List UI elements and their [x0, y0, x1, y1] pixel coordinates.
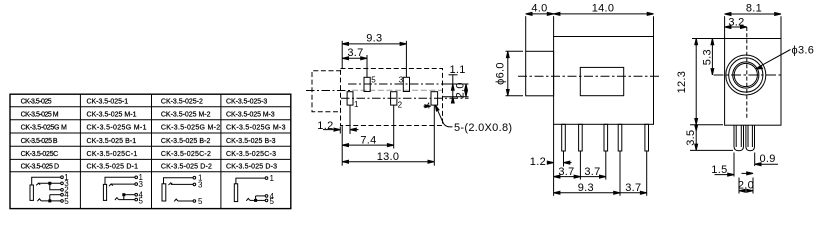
- pin 1 (top view): [347, 92, 353, 105]
- svg-text:1.2: 1.2: [530, 156, 546, 168]
- dimension 3.7 second line: [580, 176, 605, 178]
- outer circle: [726, 55, 766, 95]
- wire vertical 4-5: [49, 195, 51, 201]
- tick bottom (3.5): [690, 149, 733, 151]
- svg-text:1.1: 1.1: [450, 64, 466, 76]
- svg-text:5-(2.0X0.8): 5-(2.0X0.8): [454, 122, 512, 134]
- contact switch pin3: [36, 183, 40, 185]
- vertical centerline (front view): [746, 27, 748, 118]
- terminal pin2: [61, 189, 64, 192]
- terminal pin5: [135, 198, 138, 201]
- tick middle (12.3 bottom): [690, 124, 723, 126]
- svg-text:1.2: 1.2: [317, 120, 333, 132]
- body (side view): [554, 37, 654, 125]
- svg-text:8.1: 8.1: [746, 3, 762, 15]
- table row divider 4: [10, 145, 291, 147]
- terminal pin5: [193, 200, 196, 203]
- svg-text:9.3: 9.3: [578, 182, 594, 194]
- terminal pin1: [61, 176, 64, 179]
- wire pin5: [178, 200, 193, 202]
- terminal pin4: [61, 193, 64, 196]
- extension tick phi6 bottom: [506, 95, 524, 97]
- dimension 1.1/2.0 vertical line: [452, 75, 454, 101]
- wire pin1: [32, 177, 61, 185]
- pin left (front view): [734, 125, 744, 151]
- table outer border: [10, 94, 291, 208]
- svg-text:5: 5: [64, 197, 69, 206]
- wire vertical 4-5: [255, 196, 257, 201]
- extension line pinC bottom: [605, 151, 607, 180]
- svg-text:CK-3.5-025C-3: CK-3.5-025C-3: [226, 151, 276, 158]
- dimension 13.0 line: [342, 161, 434, 163]
- axis centerline (side view): [518, 75, 661, 77]
- wire pin1: [164, 178, 194, 184]
- svg-text:5.3: 5.3: [702, 49, 714, 65]
- terminal pin3: [61, 182, 64, 185]
- body outline dashed (top view): [341, 69, 443, 126]
- extension line pin5 top: [366, 55, 368, 77]
- dimension 2.0 arrows: [739, 190, 745, 192]
- leader phi3.6: [758, 50, 791, 68]
- wire pin4: [256, 195, 266, 197]
- contact switch pin5: [115, 198, 119, 200]
- svg-text:CK-3.5-025C: CK-3.5-025C: [21, 151, 59, 158]
- svg-text:CK-3.5-025G M: CK-3.5-025G M: [21, 125, 67, 132]
- dimension 9.3 line (side view): [554, 192, 620, 194]
- centerline pin row lower: [341, 97, 469, 99]
- extension line pinB bottom: [579, 151, 581, 180]
- svg-text:CK-3.5-025 M-1: CK-3.5-025 M-1: [87, 111, 137, 118]
- jack body J1: [30, 185, 33, 200]
- extension tick body corner 1.2: [339, 127, 341, 134]
- middle circle: [729, 58, 763, 92]
- svg-text:3.7: 3.7: [625, 182, 641, 194]
- table row divider 5: [10, 158, 291, 160]
- terminal pin1: [135, 176, 138, 179]
- extension line 2.0 left: [738, 178, 740, 194]
- dimension 3.5 line: [695, 125, 697, 151]
- dimension 0.9 leader: [755, 163, 778, 165]
- svg-text:5: 5: [139, 197, 144, 206]
- svg-text:12.3: 12.3: [676, 71, 688, 94]
- svg-text:CK-3.5-025-2: CK-3.5-025-2: [161, 99, 203, 106]
- svg-text:CK-3.5-025-3: CK-3.5-025-3: [226, 99, 267, 106]
- junction dot node D: [255, 199, 257, 201]
- svg-text:CK-3.5-025 M: CK-3.5-025 M: [21, 111, 59, 118]
- extension line pin2 bottom: [393, 105, 395, 148]
- arrow at pin4: [424, 105, 430, 107]
- pin right (front view): [746, 125, 755, 151]
- svg-text:2.0: 2.0: [738, 179, 754, 191]
- terminal pin1: [265, 177, 268, 180]
- wire pin3: [111, 183, 135, 185]
- wire pin1: [105, 177, 135, 184]
- pin e (side view): [645, 124, 649, 151]
- table column divider 2: [151, 94, 153, 208]
- terminal pin1: [193, 176, 196, 179]
- wire pin1: [236, 178, 265, 184]
- svg-text:9.3: 9.3: [366, 33, 382, 45]
- svg-text:1: 1: [354, 100, 359, 109]
- extension line pin1 bottom: [349, 105, 351, 134]
- svg-text:CK-3.5-025 B-1: CK-3.5-025 B-1: [87, 138, 137, 145]
- extension line body right top: [653, 16, 655, 36]
- dimension 3.7 first line: [554, 176, 581, 178]
- svg-text:ϕ3.6: ϕ3.6: [792, 45, 815, 57]
- svg-text:CK-3.5-025 B-2: CK-3.5-025 B-2: [161, 138, 211, 145]
- junction dot node C: [123, 194, 125, 196]
- svg-text:CK-3.5-025G M-1: CK-3.5-025G M-1: [87, 125, 147, 132]
- dimension 1.2 arrows: [323, 129, 340, 131]
- extension line bushing left top: [525, 16, 527, 51]
- pin left inner lines: [736, 125, 741, 147]
- leader 5-(2.0X0.8): [436, 107, 452, 127]
- extension line body left bottom: [341, 126, 343, 166]
- extension line pin left edge: [733, 153, 735, 177]
- centerline extension right upper: [443, 83, 469, 85]
- svg-text:3.7: 3.7: [584, 166, 600, 178]
- junction dot node B: [49, 200, 51, 202]
- wire pin3: [39, 182, 61, 184]
- pin 3 (top view): [403, 77, 409, 91]
- dimension 1.2 arrows (side view): [548, 162, 554, 164]
- svg-text:5: 5: [270, 197, 275, 206]
- contact switch pin5: [174, 199, 178, 201]
- extension line pinE bottom: [646, 151, 648, 196]
- arrow 0.9 left: [742, 172, 753, 174]
- table row divider 2: [10, 119, 291, 121]
- table column divider 3: [220, 94, 222, 208]
- extension line pinD bottom: [619, 151, 621, 196]
- pin d (side view): [618, 124, 622, 151]
- svg-text:4: 4: [426, 101, 431, 110]
- dimension 7.4 line: [342, 144, 394, 146]
- svg-text:5: 5: [198, 197, 203, 206]
- terminal pin4: [135, 193, 138, 196]
- dimension 3.7 line: [342, 57, 367, 59]
- svg-text:CK-3.5-025 M-3: CK-3.5-025 M-3: [226, 111, 275, 118]
- svg-text:14.0: 14.0: [592, 3, 615, 15]
- wire pin2: [50, 183, 61, 190]
- pin c (side view): [604, 124, 608, 151]
- svg-text:CK-3.5-025C-1: CK-3.5-025C-1: [87, 151, 138, 158]
- dimension 2.0 line right: [465, 84, 467, 97]
- svg-text:CK-3.5-025 B-3: CK-3.5-025 B-3: [226, 138, 276, 145]
- svg-text:CK-3.5-025 D-1: CK-3.5-025 D-1: [87, 164, 139, 171]
- svg-text:CK-3.5-025 D-2: CK-3.5-025 D-2: [161, 164, 212, 171]
- tick 1.1 top: [449, 74, 458, 76]
- extension line pinA bottom: [563, 151, 565, 167]
- svg-text:CK-3.5-025 D-3: CK-3.5-025 D-3: [226, 164, 277, 171]
- svg-text:3.7: 3.7: [558, 166, 574, 178]
- extension line pin4 bottom: [433, 105, 435, 166]
- extension line pin3 top: [405, 41, 407, 78]
- dimension 14.0 line: [554, 13, 654, 15]
- pin b (side view): [579, 124, 583, 151]
- dimension 9.3 line: [342, 43, 406, 45]
- svg-text:CK-3.5-025: CK-3.5-025: [21, 99, 52, 106]
- wire pin5: [119, 199, 135, 201]
- contact switch pin5: [37, 199, 41, 201]
- contact switch pin5: [246, 198, 250, 200]
- table row divider 6: [10, 171, 291, 173]
- table column divider 1: [79, 94, 81, 208]
- svg-text:CK-3.5-025-1: CK-3.5-025-1: [87, 99, 129, 106]
- pin 2 (top view): [391, 92, 397, 105]
- body (front view): [725, 39, 781, 126]
- svg-text:CK-3.5-025 D: CK-3.5-025 D: [21, 164, 60, 171]
- pin right inner lines: [748, 125, 752, 147]
- wire pin5: [250, 199, 265, 201]
- tick top (12.3/5.3): [692, 38, 725, 40]
- terminal pin5: [61, 200, 64, 203]
- wire vertical 4-5: [123, 195, 125, 200]
- svg-text:4.0: 4.0: [531, 3, 547, 15]
- jack body J2: [103, 184, 106, 200]
- inner circle phi3.6: [733, 62, 759, 88]
- svg-text:1: 1: [270, 174, 275, 183]
- contact switch pin3: [109, 184, 113, 186]
- dimension 3.2 line: [725, 26, 747, 28]
- dimension 3.7 third line: [620, 192, 647, 194]
- terminal pin5: [265, 199, 268, 202]
- extension line body left top: [553, 16, 555, 36]
- svg-text:3.5: 3.5: [685, 130, 697, 146]
- extension line body left bottom: [553, 124, 555, 196]
- pin a (side view): [562, 124, 566, 151]
- jack body J3: [162, 184, 166, 201]
- table part numbers: [21, 99, 286, 171]
- jack body J4: [234, 184, 237, 202]
- svg-text:ϕ6.0: ϕ6.0: [495, 62, 507, 85]
- terminal pin4: [265, 195, 268, 198]
- extension line pin right edge: [754, 153, 756, 167]
- extension line body left top: [341, 41, 343, 69]
- svg-text:CK-3.5-025 M-2: CK-3.5-025 M-2: [161, 111, 211, 118]
- bushing centerline: [306, 90, 352, 92]
- wire pin4: [124, 194, 135, 196]
- extension line 2.0 right: [752, 178, 754, 194]
- body hidden centerline gray: [352, 89, 442, 91]
- svg-text:3: 3: [399, 76, 404, 85]
- dimension 12.3 line: [695, 39, 697, 125]
- junction dot node A: [49, 182, 51, 184]
- horizontal centerline (front view): [714, 74, 781, 76]
- svg-text:2.0: 2.0: [455, 82, 467, 98]
- table row divider 1: [10, 106, 291, 108]
- centerline extension right lower: [443, 96, 469, 98]
- svg-text:7.4: 7.4: [360, 134, 376, 146]
- contact switch pin3: [169, 183, 173, 185]
- svg-text:CK-3.5-025G M-2: CK-3.5-025G M-2: [161, 125, 220, 132]
- dimension 5.3 line: [711, 39, 713, 75]
- svg-text:CK-3.5-025G M-3: CK-3.5-025G M-3: [226, 125, 286, 132]
- svg-text:CK-3.5-025C-2: CK-3.5-025C-2: [161, 151, 211, 158]
- pin 5 (top view): [364, 77, 370, 91]
- pin 4 (top view): [431, 92, 438, 105]
- wire pin5: [41, 200, 61, 202]
- bushing (side view): [526, 51, 554, 96]
- dimension phi6.0 line: [507, 51, 509, 96]
- svg-text:2: 2: [398, 101, 403, 110]
- svg-text:3: 3: [139, 180, 144, 189]
- wire pin3: [171, 183, 193, 185]
- svg-text:13.0: 13.0: [377, 151, 400, 163]
- dimension 1.5 leader: [715, 174, 734, 176]
- svg-text:3.7: 3.7: [347, 47, 363, 59]
- svg-text:CK-3.5-025 B: CK-3.5-025 B: [21, 138, 58, 145]
- terminal pin3: [135, 183, 138, 186]
- svg-text:5: 5: [371, 76, 376, 85]
- svg-text:0.9: 0.9: [760, 153, 776, 165]
- dimension 8.1 line: [725, 13, 781, 15]
- extension line body right top (front): [780, 16, 782, 38]
- bushing outline dashed (top view): [312, 71, 341, 112]
- svg-text:3: 3: [198, 180, 203, 189]
- centerline pin row upper: [348, 83, 469, 85]
- svg-text:3.2: 3.2: [728, 16, 744, 28]
- wire pin4: [50, 194, 61, 196]
- table row divider 3: [10, 132, 291, 134]
- extension tick phi6 top: [506, 50, 524, 52]
- terminal pin3: [193, 183, 196, 186]
- svg-text:1.5: 1.5: [711, 164, 727, 176]
- extension line body left top (front): [724, 16, 726, 38]
- window (side view): [580, 67, 623, 95]
- dimension 4.0 line: [526, 13, 554, 15]
